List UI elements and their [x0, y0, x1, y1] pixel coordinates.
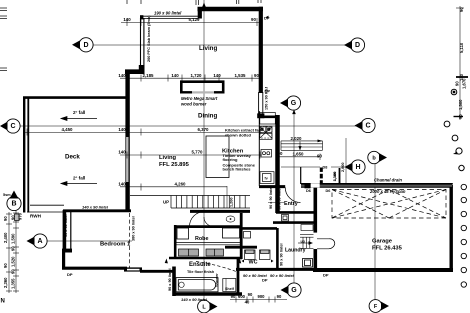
bedroom door arc: [190, 212, 205, 227]
svg-text:5,129: 5,129: [189, 17, 201, 22]
robe door small arc: [204, 217, 214, 227]
porch edge line: [281, 166, 320, 168]
grid line C: [19, 125, 361, 127]
ensuite east wall: [237, 258, 240, 294]
shower dashed curve: [196, 262, 236, 272]
svg-text:N: N: [1, 299, 5, 305]
deck north wall: [23, 96, 126, 99]
wall jog at slab beam: [125, 69, 145, 74]
marker D left: [72, 38, 93, 52]
svg-text:1,590: 1,590: [11, 233, 16, 244]
svg-text:FFL 26.435: FFL 26.435: [372, 246, 403, 252]
svg-text:1,500: 1,500: [458, 99, 463, 110]
svg-text:90: 90: [278, 151, 283, 156]
svg-text:Entry: Entry: [284, 201, 298, 207]
grid line A: [47, 240, 132, 242]
svg-text:G: G: [291, 287, 297, 294]
svg-text:90 x 90 lintel: 90 x 90 lintel: [269, 186, 273, 209]
svg-text:Robe: Robe: [195, 236, 208, 242]
wall top (living north): [198, 7, 264, 12]
svg-text:DP: DP: [262, 278, 268, 283]
bedroom north lintel wall: [63, 209, 131, 212]
entry south wall 1: [276, 211, 316, 214]
dim top y22: [121, 21, 262, 23]
svg-text:5,770: 5,770: [192, 150, 204, 155]
right vertical dim line: [459, 6, 461, 120]
wc north wall: [241, 227, 277, 230]
dim y155 (140 / 5770): [120, 154, 262, 156]
marker C right: [355, 118, 376, 132]
dim bottom (90 600 90 900 90): [230, 299, 287, 301]
svg-text:90: 90: [317, 154, 322, 159]
bedroom west step: [62, 249, 72, 253]
svg-text:Deck: Deck: [65, 154, 80, 161]
svg-text:90: 90: [3, 216, 8, 221]
svg-text:2,400: 2,400: [3, 232, 8, 243]
svg-text:1,720: 1,720: [191, 73, 203, 78]
svg-text:140: 140: [213, 73, 221, 78]
svg-text:shown dotted: shown dotted: [225, 133, 252, 138]
rotated dim texts left edge: [3, 212, 23, 289]
svg-text:1,650: 1,650: [293, 152, 305, 157]
svg-text:D6: D6: [306, 189, 311, 193]
deck south edge lines: [30, 204, 64, 206]
svg-text:2,185: 2,185: [143, 73, 155, 78]
garage south wall: [313, 268, 453, 272]
svg-text:140: 140: [459, 73, 464, 81]
laundry mini stairs: [298, 225, 314, 249]
kitchen island bench: [206, 136, 229, 178]
svg-text:Ensuite: Ensuite: [189, 262, 211, 268]
svg-text:Bedroom 1: Bedroom 1: [100, 242, 131, 248]
dim line 2800 vertical: [345, 138, 347, 184]
svg-text:H: H: [355, 164, 360, 171]
ensuite west wall: [172, 267, 176, 297]
porch east wall: [339, 168, 341, 184]
svg-text:90 x 90 lintel: 90 x 90 lintel: [64, 214, 68, 237]
svg-text:90: 90: [231, 294, 236, 299]
svg-text:2000 x 45 HySpan: 2000 x 45 HySpan: [369, 189, 406, 194]
svg-text:4,450: 4,450: [62, 127, 74, 132]
svg-text:190 x 90 lintel: 190 x 90 lintel: [154, 11, 182, 16]
marker B: [7, 191, 21, 211]
lintel north (190x90) double thin: [143, 15, 199, 17]
svg-text:380 x 90 lintel: 380 x 90 lintel: [132, 216, 136, 241]
svg-text:UP: UP: [163, 200, 169, 205]
garage north lintel wall (HySpan): [301, 184, 453, 188]
svg-text:90: 90: [11, 215, 16, 220]
marker C left: [0, 119, 20, 133]
svg-text:DP: DP: [264, 16, 270, 21]
wall step to kitchen east: [257, 113, 264, 118]
ensuite door tick marks: [165, 259, 168, 264]
svg-text:90 x 90 lintel: 90 x 90 lintel: [280, 243, 284, 266]
marker D right: [344, 38, 365, 52]
marker G top: [280, 96, 301, 110]
kitchen west face: [258, 111, 260, 186]
corner post NW living: [140, 15, 143, 19]
front door gap in lintel: [311, 183, 320, 187]
svg-text:D: D: [83, 42, 88, 49]
laundry west wall: [276, 228, 279, 270]
entry east sidelight blocks D6: [305, 168, 323, 189]
garage west wall lower: [313, 249, 317, 270]
2020 down arrow: [299, 142, 301, 151]
svg-text:2° fall: 2° fall: [73, 176, 85, 181]
robe south wall: [169, 257, 242, 260]
bedroom dashed wall line: [129, 213, 131, 268]
svg-text:Shelf: Shelf: [225, 287, 235, 291]
svg-text:6,370: 6,370: [198, 127, 210, 132]
svg-text:1,520: 1,520: [11, 256, 16, 267]
svg-text:C: C: [365, 123, 370, 130]
svg-text:140: 140: [118, 127, 126, 132]
grid line top arrow: [202, 3, 206, 8]
svg-text:900: 900: [258, 294, 266, 299]
hall ceiling light oval: [226, 216, 235, 222]
marker H: [345, 160, 366, 174]
svg-text:140: 140: [171, 73, 179, 78]
svg-text:5,110: 5,110: [459, 42, 464, 53]
svg-text:140 x 90 lintel: 140 x 90 lintel: [82, 205, 109, 210]
svg-text:600: 600: [238, 294, 246, 299]
svg-text:fv: fv: [265, 177, 268, 181]
right edge small circles: [444, 89, 464, 171]
window living east (double thin): [258, 92, 260, 114]
svg-text:1,200: 1,200: [230, 197, 234, 207]
svg-text:B: B: [11, 201, 16, 208]
svg-text:D8: D8: [323, 166, 328, 170]
svg-text:90: 90: [11, 269, 16, 274]
2 fall arrow lower: [62, 183, 97, 185]
svg-text:wood burner: wood burner: [181, 102, 207, 107]
svg-text:1,535: 1,535: [235, 73, 247, 78]
shelf box ensuite: [223, 279, 236, 292]
2 fall arrow upper: [62, 118, 97, 120]
robe east / hall wall: [240, 213, 243, 259]
rotated dim texts right edge: [455, 7, 467, 119]
wall living west upper thin pair: [140, 18, 142, 66]
marker G bottom: [281, 283, 302, 297]
wall hall south (kitchen to entry door): [259, 185, 285, 188]
garage east wall: [450, 185, 453, 272]
grid line F vertical (garage centre): [374, 164, 376, 300]
top edge witness ticks: [126, 0, 128, 4]
fall arrows: [61, 117, 97, 186]
svg-text:90 x 90 lintel: 90 x 90 lintel: [270, 273, 295, 278]
svg-text:200 PFC Slab beam (5mb): 200 PFC Slab beam (5mb): [147, 15, 151, 62]
wall living east upper: [259, 7, 263, 93]
deck west wall: [23, 97, 25, 213]
svg-text:Channel drain: Channel drain: [374, 178, 402, 183]
svg-text:WC: WC: [249, 260, 258, 266]
rotated small annotations: [3, 15, 345, 291]
grid line G vertical: [293, 110, 295, 284]
svg-text:90: 90: [277, 294, 282, 299]
window band living west (grey overlay): [126, 137, 128, 182]
svg-text:970: 970: [18, 212, 23, 220]
svg-text:D6: D6: [326, 189, 331, 193]
svg-text:Tile floor finish: Tile floor finish: [187, 270, 215, 274]
svg-text:90 x 90 lintel: 90 x 90 lintel: [168, 268, 172, 291]
entry south wall 2: [273, 221, 316, 224]
kitchen pantry shelves: [281, 140, 323, 151]
laundry washer: [303, 259, 313, 268]
svg-text:90: 90: [248, 292, 253, 297]
svg-text:Metro Mega Smart: Metro Mega Smart: [181, 96, 218, 101]
svg-text:FFL 25.895: FFL 25.895: [159, 162, 190, 168]
svg-text:flooring: flooring: [223, 157, 238, 162]
svg-text:DP: DP: [67, 272, 73, 277]
wc/laundry south wall: [236, 268, 313, 271]
kitchen extract flue dashed: [260, 127, 272, 138]
dim y187 (140 / 4260): [120, 186, 227, 188]
svg-text:Garage: Garage: [372, 239, 393, 245]
svg-text:5sm: 5sm: [3, 193, 11, 197]
marker F bottom (garage): [369, 300, 389, 313]
svg-text:Laundry: Laundry: [285, 248, 306, 254]
svg-text:90 x 90 lintel: 90 x 90 lintel: [278, 187, 282, 210]
svg-text:2,020: 2,020: [291, 136, 303, 141]
svg-text:Dining: Dining: [198, 113, 217, 120]
marker L bottom left: [198, 300, 218, 313]
svg-text:140: 140: [123, 17, 131, 22]
svg-text:bench finishes: bench finishes: [223, 167, 252, 172]
porch west edge: [300, 167, 302, 184]
svg-text:1,355: 1,355: [11, 278, 16, 289]
wall living west (x127): [125, 70, 129, 212]
svg-text:G: G: [291, 100, 297, 107]
svg-text:RWH: RWH: [30, 214, 42, 219]
svg-text:2° fall: 2° fall: [73, 110, 85, 115]
garage west wall upper: [313, 185, 317, 233]
marker A: [27, 234, 48, 248]
entry door arc: [285, 187, 300, 202]
svg-text:140: 140: [118, 150, 126, 155]
svg-text:4,260: 4,260: [175, 181, 187, 186]
left vertical dim lines: [8, 212, 10, 293]
svg-text:A: A: [37, 238, 42, 245]
entry AC box: [282, 215, 289, 222]
grid line D: [92, 44, 350, 46]
bedroom west wall: [63, 210, 67, 252]
robe north wall: [174, 225, 242, 228]
svg-text:2,800: 2,800: [341, 162, 345, 172]
svg-text:90: 90: [254, 73, 259, 78]
svg-text:Living: Living: [159, 155, 177, 161]
grid line L vertical full height: [203, 0, 205, 300]
svg-text:1,300: 1,300: [333, 172, 337, 182]
svg-text:150 x 90 RSJ: 150 x 90 RSJ: [265, 87, 269, 110]
garage/laundry door leaf: [317, 239, 335, 249]
svg-text:D: D: [355, 42, 360, 49]
wall under stairs: [190, 210, 250, 213]
svg-text:DP: DP: [323, 273, 329, 278]
svg-text:90: 90: [251, 17, 256, 22]
svg-text:Shower: Shower: [215, 273, 219, 287]
robe west wall: [174, 225, 177, 259]
dim y78: [120, 77, 262, 79]
svg-text:40: 40: [245, 300, 250, 305]
DP leader tick: [266, 16, 269, 19]
dim kitchen y154.5 (90 1650 90): [277, 156, 320, 158]
svg-text:Living: Living: [199, 45, 217, 52]
svg-text:C: C: [10, 123, 15, 130]
svg-text:90: 90: [458, 114, 463, 119]
dim y132 (4450 / 140 / 6370): [25, 131, 262, 133]
marker Vb (diamond right): [368, 151, 387, 163]
marker H leader: [331, 166, 349, 168]
ensuite south wall: [173, 292, 243, 295]
dim drop 4260: [226, 186, 228, 208]
wc cistern box: [244, 232, 251, 239]
svg-text:90: 90: [3, 263, 8, 268]
bedroom south wall: [62, 267, 127, 270]
svg-text:140 x 90 lintel: 140 x 90 lintel: [181, 297, 208, 302]
stairs top rail extension: [130, 195, 171, 197]
svg-text:2,360: 2,360: [3, 277, 8, 288]
svg-text:140: 140: [118, 73, 126, 78]
svg-text:140: 140: [118, 181, 126, 186]
kitchen east wall: [275, 115, 280, 213]
svg-text:90: 90: [459, 7, 464, 12]
svg-text:90: 90: [11, 246, 16, 251]
